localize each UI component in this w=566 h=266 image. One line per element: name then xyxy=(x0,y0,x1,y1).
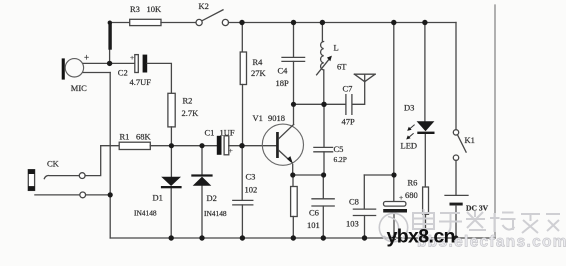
svg-text:R1: R1 xyxy=(120,132,130,142)
svg-text:CK: CK xyxy=(47,159,60,169)
svg-text:+: + xyxy=(229,146,233,155)
svg-text:10K: 10K xyxy=(147,4,163,14)
svg-text:IN4148: IN4148 xyxy=(204,209,227,218)
svg-text:R3: R3 xyxy=(130,4,140,14)
svg-text:IN4148: IN4148 xyxy=(134,209,157,218)
svg-text:ybx8.cn: ybx8.cn xyxy=(387,226,455,248)
svg-text:68K: 68K xyxy=(136,132,152,142)
svg-text:D3: D3 xyxy=(404,103,414,113)
svg-text:9018: 9018 xyxy=(268,113,285,123)
svg-text:C8: C8 xyxy=(349,197,359,207)
svg-text:680: 680 xyxy=(405,190,418,200)
svg-text:27K: 27K xyxy=(251,68,267,78)
svg-text:2.7K: 2.7K xyxy=(182,108,200,118)
svg-text:47P: 47P xyxy=(342,117,356,127)
svg-text:C6: C6 xyxy=(309,208,319,218)
svg-text:C4: C4 xyxy=(278,66,289,76)
svg-text:R2: R2 xyxy=(183,96,193,106)
svg-text:R4: R4 xyxy=(253,57,264,67)
svg-text:D2: D2 xyxy=(207,193,217,203)
svg-text:C2: C2 xyxy=(118,68,128,78)
svg-text:K2: K2 xyxy=(199,1,209,11)
svg-text:+: + xyxy=(130,53,134,62)
svg-text:MIC: MIC xyxy=(71,83,87,93)
svg-text:C7: C7 xyxy=(343,84,353,94)
svg-text:+: + xyxy=(399,193,403,202)
svg-text:103: 103 xyxy=(346,219,359,229)
svg-text:+: + xyxy=(84,53,89,63)
svg-text:6.2P: 6.2P xyxy=(334,155,347,164)
svg-text:18P: 18P xyxy=(276,78,290,88)
svg-text:R6: R6 xyxy=(408,178,418,188)
svg-text:102: 102 xyxy=(245,185,258,195)
svg-text:C5: C5 xyxy=(334,144,344,154)
svg-text:4.7UF: 4.7UF xyxy=(130,77,152,87)
svg-text:C1: C1 xyxy=(205,128,215,138)
svg-text:101: 101 xyxy=(307,220,320,230)
svg-text:LED: LED xyxy=(401,141,418,151)
svg-text:6T: 6T xyxy=(337,62,347,72)
svg-text:K1: K1 xyxy=(465,135,475,145)
svg-text:DC 3V: DC 3V xyxy=(466,204,489,213)
svg-text:V1: V1 xyxy=(253,113,263,123)
svg-text:C3: C3 xyxy=(246,172,256,182)
svg-text:L: L xyxy=(334,43,339,53)
svg-text:D1: D1 xyxy=(153,193,163,203)
svg-text:1UF: 1UF xyxy=(220,128,235,138)
